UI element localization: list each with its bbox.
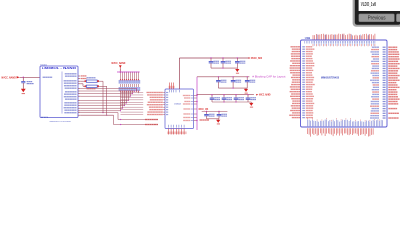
resistor R1604 (80, 83, 83, 85)
wire U1602 power to rail (178, 58, 180, 89)
U1001 right pin stubs (78, 75, 80, 77)
junction node (23, 77, 25, 79)
net label NVCC_NAND (rail3) (256, 94, 258, 96)
rail3 bottom wire (212, 101, 251, 103)
svg-text:MIMX8UD7DVP08SD: MIMX8UD7DVP08SD (50, 121, 72, 123)
inner divider (61, 72, 63, 114)
svg-text:U1B: U1B (305, 36, 310, 40)
svg-text:VLDO_1v8: VLDO_1v8 (361, 2, 376, 8)
wire bottom bus row 2 (80, 114, 113, 116)
svg-text:# Blocking CAP for Layout: # Blocking CAP for Layout (252, 76, 285, 79)
bus staircase resistor-bank to U1001 rows (120, 92, 122, 111)
ground rail1 (235, 69, 239, 72)
U1B top pin numbers near corner (304, 41, 306, 44)
rail 2 with caps C1608-C1610 (197, 76, 249, 78)
U1001 ref text inside bottom (41, 117, 48, 118)
rail NVCC_SD2 with caps C1605-C1607 (210, 57, 211, 58)
U1602 left pin labels (163, 92, 165, 94)
svg-text:NVCC_NAND: NVCC_NAND (112, 61, 126, 65)
resistor bank RN1600 (10 pull resistors) (120, 72, 122, 80)
resistor R1603 (80, 80, 85, 82)
U1001 right pin name/number column (65, 73, 77, 74)
bank power rail (117, 71, 140, 73)
net label NVCC_SD2 (249, 57, 251, 59)
U1602 bottom pins (168, 129, 170, 135)
U1602 top pin stubs (169, 83, 171, 90)
U1B bottom pin labels (307, 120, 309, 127)
svg-text:NVCC_SD2: NVCC_SD2 (251, 56, 262, 60)
U1B right pin labels (372, 47, 379, 48)
U1602 right pin stubs and labels (194, 95, 198, 97)
NAND flash U1602 (165, 89, 194, 129)
rail2 bottom wire (218, 87, 247, 89)
ground rail4 (216, 120, 220, 123)
find bar overlay (353, 0, 400, 27)
svg-text:NVCC_NAND: NVCC_NAND (259, 94, 271, 97)
U1602 lower-left labels (145, 119, 158, 120)
svg-text:NVCC_NAND: NVCC_NAND (2, 75, 16, 79)
net label at U1602 right (200, 119, 210, 120)
bus rows to U1602 left pins (121, 92, 144, 94)
ground rail2 (244, 89, 248, 92)
capacitor C1603 (22, 77, 24, 81)
rail1 bottom wire (211, 67, 237, 69)
U1B left pin labels (290, 46, 300, 47)
rail4 bottom wire (207, 118, 220, 120)
pin NVCC_NAND (inside) (43, 77, 53, 78)
svg-text:i.MX8UL - NANO: i.MX8UL - NANO (42, 66, 77, 70)
svg-text:U1602: U1602 (174, 103, 182, 105)
wire NVCC_NAND to U1001 (20, 76, 40, 78)
U1001 pin labels group1 (81, 75, 87, 76)
rail NVCC_NAND with caps C1611-C1614 (197, 94, 254, 96)
svg-text:MIMX8UD7DVK08: MIMX8UD7DVK08 (321, 77, 340, 79)
bus vertical net to decoupling rails (196, 77, 198, 130)
svg-text:Previous: Previous (368, 16, 386, 22)
U1B top pin labels (312, 35, 314, 39)
svg-text:NVCC_1V8: NVCC_1V8 (199, 109, 209, 111)
U1602 top pin numbers (169, 90, 171, 93)
ground rail3 (249, 103, 253, 106)
wire bottom bus row 1 (80, 112, 118, 114)
ground (21, 89, 26, 92)
